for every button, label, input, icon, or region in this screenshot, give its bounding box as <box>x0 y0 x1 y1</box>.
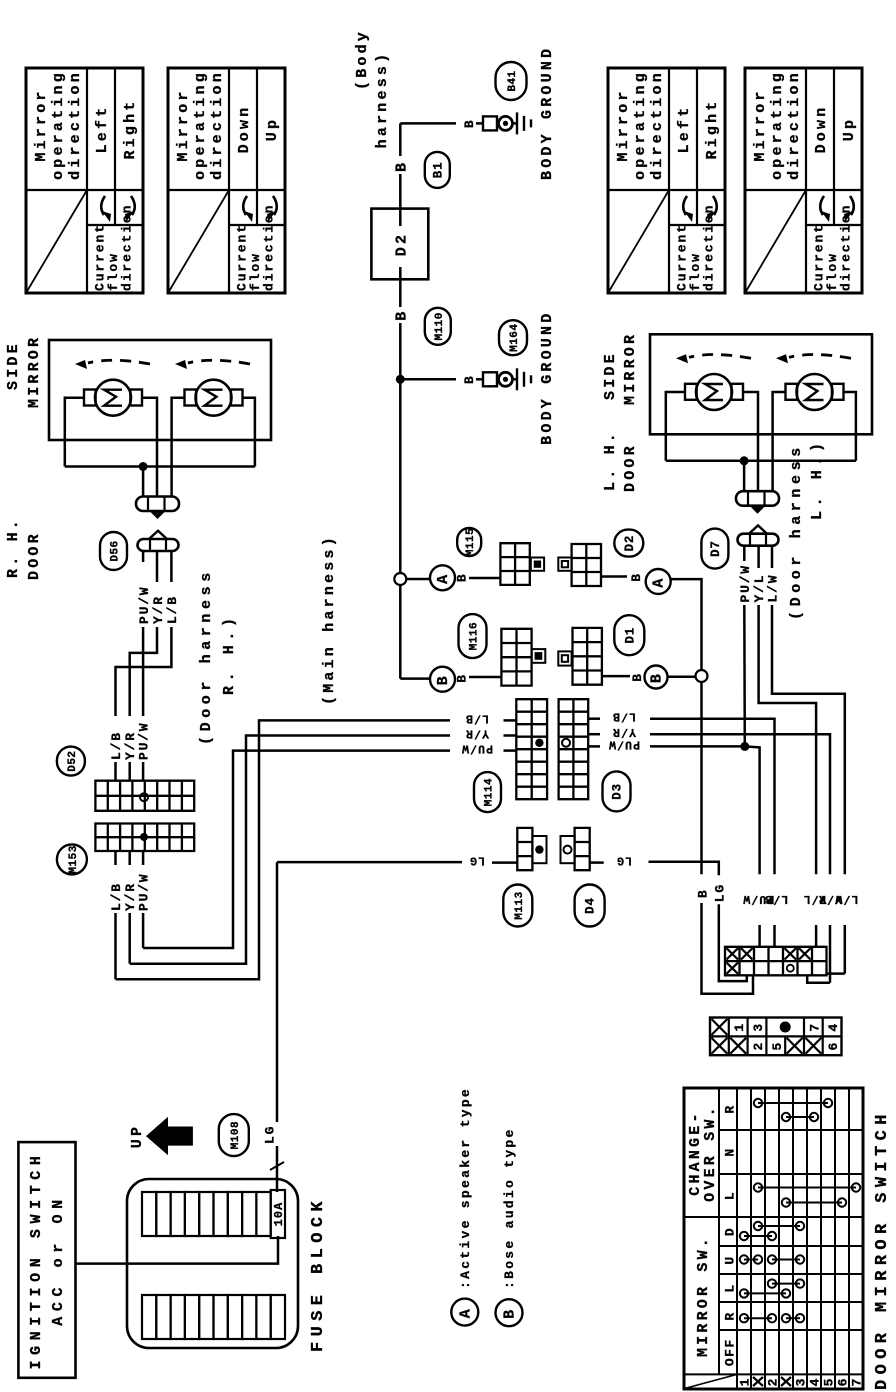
wire L/B from D56 with jog <box>170 551 173 582</box>
svg-text:B: B <box>462 119 477 128</box>
LH mirror mirror box <box>650 334 872 434</box>
svg-text:B: B <box>630 672 645 681</box>
LH mirror connector pair door-side connector <box>738 534 779 546</box>
table T1 arrows <box>101 196 105 215</box>
wire L/B right run <box>650 719 775 875</box>
fuse strip left <box>142 1295 156 1339</box>
svg-text:direction: direction <box>67 70 84 180</box>
wire PU/W jog to switch <box>745 746 760 874</box>
svg-text:SIDE: SIDE <box>5 341 22 390</box>
connector M114 grid <box>516 699 547 799</box>
wire LG from fuse <box>276 1146 279 1192</box>
fuse 10A cell <box>271 1190 285 1238</box>
svg-text:R: R <box>723 1104 738 1113</box>
switch table contacts R2 col <box>758 1102 828 1104</box>
switch connector grid <box>725 947 827 976</box>
connector M164 bubble <box>499 320 527 355</box>
svg-text:Left: Left <box>676 105 693 154</box>
connector M115 bubble <box>457 528 481 556</box>
table T3 diagonal <box>608 190 669 293</box>
svg-text:B1: B1 <box>431 162 445 179</box>
svg-text:direction: direction <box>209 70 226 180</box>
svg-text:L/B: L/B <box>165 595 180 624</box>
wire B wrap to connector <box>702 903 754 994</box>
connector D4 marker <box>561 836 575 863</box>
wire Y/R from D56 with jog <box>156 551 159 582</box>
connector M116 marker <box>532 649 546 663</box>
svg-text:ACC or ON: ACC or ON <box>50 1194 67 1325</box>
RH mirror motor arrows <box>88 360 150 364</box>
connector D4 bubble <box>575 885 605 927</box>
svg-text:3: 3 <box>794 1377 809 1386</box>
svg-text:(Door harness: (Door harness <box>198 568 215 745</box>
svg-text:B41: B41 <box>507 70 519 91</box>
svg-text:M164: M164 <box>509 323 521 351</box>
switch connector index ring <box>787 965 794 972</box>
connector D3 bubble <box>603 771 631 811</box>
switch table grid lines <box>684 1088 863 1389</box>
circled B right <box>645 666 668 689</box>
RH mirror mirror box <box>49 340 271 440</box>
svg-text:LG: LG <box>263 1125 278 1144</box>
svg-text:MIRROR: MIRROR <box>26 335 43 408</box>
table T4 frame <box>745 68 862 293</box>
pin strip left column cells <box>712 1038 728 1054</box>
svg-text:(Main harness): (Main harness) <box>321 534 338 705</box>
svg-text:L. H.: L. H. <box>602 430 619 491</box>
svg-text:operating: operating <box>192 70 209 180</box>
junction ring B <box>696 670 708 682</box>
svg-text:Mirror: Mirror <box>752 88 769 161</box>
svg-text:L/W: L/W <box>834 892 858 905</box>
svg-text:DOOR MIRROR SWITCH: DOOR MIRROR SWITCH <box>873 1109 892 1390</box>
svg-text:D1: D1 <box>623 627 637 644</box>
svg-text:L: L <box>723 1283 738 1292</box>
wire Y/R run to M114 <box>130 736 450 964</box>
svg-text:4: 4 <box>808 1377 823 1386</box>
svg-text:7: 7 <box>807 1022 822 1031</box>
svg-text:A: A <box>457 1306 474 1318</box>
svg-text:A: A <box>651 575 668 587</box>
svg-text:B: B <box>649 671 666 683</box>
connector D52 grid <box>95 781 194 811</box>
wire B to M116 <box>469 676 501 679</box>
svg-text:Mirror: Mirror <box>615 88 632 161</box>
RH mirror wire motor1 bottom to connector <box>142 398 157 496</box>
svg-text:10A: 10A <box>272 1202 286 1227</box>
D4 stub LG <box>590 861 604 864</box>
svg-text:5: 5 <box>822 1377 837 1386</box>
svg-text:operating: operating <box>769 70 786 180</box>
LH mirror wire motor2 top to connector <box>773 392 786 490</box>
connector M110 bubble <box>425 308 451 345</box>
connector D3 index ring <box>562 739 570 747</box>
svg-text:BODY GROUND: BODY GROUND <box>539 311 556 445</box>
connector D1-mate grid <box>573 628 602 685</box>
table T1 diagonal <box>26 190 87 293</box>
wire circled A right to switch <box>671 579 702 670</box>
connector D56 bubble <box>100 532 127 570</box>
RH mirror connector pair arrow (mating direction) <box>150 511 166 519</box>
wire D1-mate to circled B right <box>602 675 630 678</box>
LH mirror wire motor1 top to bus <box>666 392 685 461</box>
connector M116 bubble <box>459 614 487 658</box>
svg-text:Up: Up <box>841 117 858 141</box>
svg-text:operating: operating <box>50 70 67 180</box>
svg-text:Right: Right <box>704 98 721 159</box>
svg-text:PU/W: PU/W <box>137 873 152 911</box>
switch table contacts U col <box>744 1259 758 1261</box>
connector D52 bubble <box>57 747 85 776</box>
fuse block boundary tick <box>270 1162 284 1170</box>
connector M153 bubble <box>57 844 87 874</box>
svg-text:D2: D2 <box>623 535 637 552</box>
trunk junction dot for M164 ground <box>396 375 405 384</box>
table T2 arrows <box>243 196 247 215</box>
LH mirror wire junction to connector <box>743 461 746 491</box>
svg-text:L/B: L/B <box>764 892 788 905</box>
trunk segment through SMJ right side <box>399 267 402 307</box>
wire L/B from M153 <box>114 851 117 865</box>
svg-text:M110: M110 <box>434 312 446 340</box>
wire PU/W run to M114 <box>143 751 450 948</box>
svg-text:DOOR: DOOR <box>26 531 43 580</box>
connector M115 marker <box>531 558 544 571</box>
legend circled A <box>451 1299 478 1326</box>
RH mirror connector pair door-side connector <box>138 539 179 551</box>
connector M114 index dot <box>535 739 543 747</box>
wire L/W wrap to connector <box>826 972 844 975</box>
svg-text:B: B <box>435 673 452 685</box>
LH mirror motor arrows <box>689 355 751 359</box>
connector M115 grid <box>500 543 529 585</box>
svg-text:5: 5 <box>770 1041 785 1050</box>
svg-text:L/W: L/W <box>766 574 781 603</box>
svg-text:N: N <box>723 1147 738 1156</box>
svg-text:Down: Down <box>813 105 830 154</box>
wire L/W run to switch <box>772 605 845 874</box>
svg-text:M115: M115 <box>465 528 477 556</box>
wire PU/W from D7 <box>743 546 746 561</box>
svg-text::Active speaker type: :Active speaker type <box>458 1087 473 1289</box>
connector D2-mate marker <box>558 558 571 571</box>
wire Y/R from M153 <box>128 851 131 865</box>
svg-text:M116: M116 <box>469 622 481 650</box>
svg-text:1: 1 <box>738 1377 753 1386</box>
svg-text:PU/W: PU/W <box>461 742 493 755</box>
svg-text:B: B <box>455 573 470 582</box>
svg-text:1: 1 <box>732 1022 747 1031</box>
SMJ box B2 <box>371 209 428 280</box>
connector D1-mate marker <box>558 651 571 665</box>
connector D2-mate grid <box>572 544 601 586</box>
svg-text:OFF: OFF <box>723 1338 738 1366</box>
wire trunk to body ground B41 <box>400 122 456 125</box>
switch table diagonal <box>685 1374 738 1388</box>
trunk wire B <box>399 323 402 679</box>
svg-text:4: 4 <box>826 1022 841 1031</box>
connector M153 grid <box>95 824 194 852</box>
svg-text:FUSE BLOCK: FUSE BLOCK <box>309 1196 328 1352</box>
RH mirror wire motor2 top to connector <box>172 398 185 496</box>
svg-text:DOOR: DOOR <box>622 443 639 492</box>
svg-text:6: 6 <box>826 1041 841 1050</box>
wire D2-mate to circled A right <box>601 575 627 578</box>
RH mirror connector pair harness-side connector <box>136 497 179 512</box>
svg-text:Mirror: Mirror <box>175 88 192 161</box>
svg-text:L/B: L/B <box>109 882 124 911</box>
switch table contacts L2 col <box>758 1187 856 1189</box>
circled B left <box>430 667 455 692</box>
LH mirror wire motor2 bottom to bus <box>844 392 856 461</box>
pin strip right column cells <box>712 1019 728 1035</box>
wire trunk to body ground M164 <box>400 378 456 381</box>
wire PU/W D7 to junction <box>743 605 746 746</box>
svg-text:Mirror: Mirror <box>33 88 50 161</box>
svg-text:PU/W: PU/W <box>738 564 753 602</box>
connector D1 bubble <box>614 615 644 655</box>
wire Y/L run to switch <box>759 605 817 874</box>
svg-text:IGNITION SWITCH: IGNITION SWITCH <box>28 1150 45 1369</box>
legend circled B <box>496 1299 523 1326</box>
wire PU/W right run <box>650 745 745 748</box>
svg-text:L/B: L/B <box>109 731 124 760</box>
svg-text:Right: Right <box>122 98 139 159</box>
svg-text:(Body: (Body <box>354 29 371 90</box>
pin layout strip grid <box>710 1018 842 1056</box>
svg-text:Left: Left <box>94 105 111 154</box>
connector M113 marker <box>532 836 546 863</box>
svg-text:direction: direction <box>786 70 803 180</box>
connector B41 bubble <box>496 62 527 100</box>
svg-text:Y/R: Y/R <box>612 725 636 738</box>
LH mirror bus wire <box>666 460 856 463</box>
wire PU/W from M153 <box>142 851 145 865</box>
svg-text:BODY GROUND: BODY GROUND <box>539 46 556 180</box>
svg-text::Bose audio type: :Bose audio type <box>502 1127 517 1289</box>
wire LG to switch <box>649 862 719 875</box>
wire Y/L from D7 <box>757 546 760 568</box>
svg-text:PU/W: PU/W <box>137 586 152 624</box>
svg-text:L. H.): L. H.) <box>809 438 826 520</box>
svg-text:PU/W: PU/W <box>137 722 152 760</box>
LH mirror junction dot <box>740 456 749 465</box>
table T3 arrows <box>683 196 687 215</box>
LH mirror wire motor1 bottom to connector <box>743 392 758 490</box>
svg-text:B: B <box>455 673 470 682</box>
UP arrow <box>146 1117 193 1156</box>
svg-text:D: D <box>723 1227 738 1236</box>
svg-text:R. H.): R. H.) <box>221 613 238 695</box>
wire LG wrap to connector <box>719 904 747 981</box>
svg-text:2: 2 <box>751 1041 766 1050</box>
svg-text:operating: operating <box>632 70 649 180</box>
svg-text:M153: M153 <box>68 845 80 873</box>
wire ignition to fuse <box>76 1236 279 1264</box>
table T4 arrows <box>820 196 824 215</box>
svg-text:L: L <box>723 1191 738 1200</box>
table T4 diagonal <box>745 190 806 293</box>
svg-text:3: 3 <box>751 1022 766 1031</box>
svg-text:Up: Up <box>264 117 281 141</box>
LH mirror connector pair arrow (mating direction) <box>750 506 766 514</box>
connector M113 bubble <box>503 885 532 927</box>
connector B1 bubble <box>425 152 450 188</box>
svg-text:2: 2 <box>766 1377 781 1386</box>
table T3 frame <box>608 68 725 293</box>
svg-text:OVER SW.: OVER SW. <box>702 1104 719 1202</box>
svg-text:6: 6 <box>836 1377 851 1386</box>
svg-text:M113: M113 <box>514 891 526 919</box>
RH mirror wire motor1 top to bus <box>65 398 84 467</box>
svg-text:Y/R: Y/R <box>465 726 489 739</box>
wire L/W from D7 <box>771 546 774 568</box>
RH mirror motor M2 <box>185 390 197 406</box>
connector D3 grid <box>559 699 589 799</box>
svg-text:LG: LG <box>712 883 727 902</box>
wire B from junction ring to switch <box>700 682 703 874</box>
connector M108 bubble <box>219 1114 249 1156</box>
table T1 frame <box>26 68 143 293</box>
svg-text:SIDE: SIDE <box>602 351 619 400</box>
svg-text:LG: LG <box>616 854 632 867</box>
trunk junction circle A <box>394 573 406 585</box>
LH mirror motor M2 <box>786 384 798 400</box>
svg-text:B: B <box>502 1307 519 1319</box>
fuse block outline <box>127 1179 298 1348</box>
svg-text:B: B <box>393 160 410 172</box>
svg-text:D2: D2 <box>393 232 410 256</box>
switch table contacts R col <box>744 1317 772 1319</box>
wire LG stub to M113 <box>492 861 517 864</box>
connector M116 grid <box>501 629 531 686</box>
table T2 frame <box>168 68 285 293</box>
LH mirror motor M1 <box>685 384 697 400</box>
svg-text:Y/R: Y/R <box>151 595 166 624</box>
svg-text:D7: D7 <box>709 540 723 557</box>
connector D4 grid <box>575 828 590 870</box>
switch table contacts D col <box>758 1225 800 1227</box>
RH mirror junction dot <box>139 462 148 471</box>
svg-text:MIRROR: MIRROR <box>622 332 639 405</box>
connector D7 bubble <box>701 529 728 569</box>
svg-text:M114: M114 <box>484 778 496 806</box>
RH mirror bus wire <box>65 465 255 468</box>
wire circled B right to junction ring <box>668 676 696 679</box>
svg-text:D56: D56 <box>110 540 122 561</box>
svg-text:7: 7 <box>850 1377 865 1386</box>
svg-text:R: R <box>723 1311 738 1320</box>
junction dot PU/W <box>740 742 749 751</box>
svg-text:B: B <box>462 375 477 384</box>
svg-text:U: U <box>723 1255 738 1264</box>
connector D2 bubble <box>614 530 643 557</box>
wire B to M115 <box>469 577 500 580</box>
svg-text:L/B: L/B <box>465 711 489 724</box>
wire L/B run to M114 <box>116 720 451 979</box>
svg-text:L/B: L/B <box>612 710 636 723</box>
D3 stub L/B <box>588 717 600 720</box>
switch table frame <box>684 1088 863 1389</box>
fuse strip right <box>142 1192 156 1236</box>
connector M153 index dot <box>140 833 148 841</box>
svg-text:D4: D4 <box>584 897 598 914</box>
svg-text:harness): harness) <box>374 51 391 149</box>
svg-text:direction: direction <box>649 70 666 180</box>
svg-text:B: B <box>629 572 644 581</box>
svg-text:M108: M108 <box>230 1121 242 1149</box>
svg-text:A: A <box>435 572 452 584</box>
svg-text:LG: LG <box>469 854 485 867</box>
svg-text:PU/W: PU/W <box>608 737 640 750</box>
wire PU/W from D56 <box>142 551 145 562</box>
svg-text:Down: Down <box>236 105 253 154</box>
wire junction to circled A <box>406 578 430 581</box>
svg-text:MIRROR SW.: MIRROR SW. <box>695 1235 712 1357</box>
svg-text:R. H.: R. H. <box>5 517 22 578</box>
wire LG down to M113 <box>277 861 462 864</box>
switch table contacts L col <box>772 1283 800 1285</box>
RH mirror motor M1 <box>84 390 96 406</box>
D3 stub Y/R <box>588 733 600 736</box>
table T2 diagonal <box>168 190 229 293</box>
svg-text:B: B <box>696 888 711 898</box>
circled A left <box>430 565 455 590</box>
wire Y/R right run <box>650 734 830 874</box>
connector M114 bubble <box>474 772 501 812</box>
svg-text:UP: UP <box>129 1124 146 1148</box>
switch connector X marks <box>727 948 739 959</box>
circled A right <box>646 569 671 594</box>
svg-text:D52: D52 <box>67 750 79 771</box>
connector D52 index ring <box>140 793 148 801</box>
RH mirror wire junction to connector <box>142 467 145 497</box>
wire trunk corner to circled B <box>400 677 430 680</box>
wire Y/R wrap to connector <box>807 975 830 983</box>
svg-text:(Door harness: (Door harness <box>788 443 805 620</box>
connector M113 grid <box>517 828 532 870</box>
svg-text:D3: D3 <box>611 783 625 800</box>
LH mirror connector pair harness-side connector <box>736 491 779 506</box>
svg-text:B: B <box>393 308 410 320</box>
RH mirror wire motor2 bottom to bus <box>243 398 255 467</box>
ignition switch box <box>18 1142 75 1378</box>
D3 stub PU/W <box>588 745 600 748</box>
